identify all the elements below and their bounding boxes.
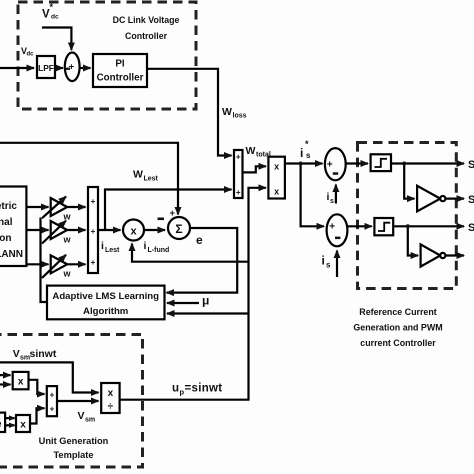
summation sigma circle: [168, 217, 190, 239]
hysteresis comparator 2: [374, 218, 393, 235]
wire hysteresis 2 output S3: [393, 225, 464, 227]
wire Vdc input to LPF: [0, 67, 34, 69]
svg-text:S: S: [468, 159, 474, 171]
label up equals sinwt: [172, 383, 222, 397]
svg-text:+: +: [50, 391, 55, 400]
label is upper: [327, 191, 335, 205]
wire branch to NOT gate 1: [404, 164, 414, 199]
svg-text:Generation and PWM: Generation and PWM: [353, 323, 442, 333]
summing junction upper: [325, 148, 346, 180]
wire is-star branch to lower summing: [301, 164, 324, 227]
svg-text:w: w: [63, 269, 72, 279]
wire LMS output to weights vertical: [41, 218, 48, 303]
wire upper summing to hysteresis 1: [346, 162, 368, 164]
svg-text:s: s: [326, 261, 331, 270]
svg-text:e: e: [196, 233, 203, 247]
wire weight2 to summer: [67, 229, 85, 231]
wire weight3 to summer: [67, 263, 85, 265]
svg-text:Adaptive LMS Learning: Adaptive LMS Learning: [52, 291, 159, 302]
wire is into upper summing: [335, 185, 337, 204]
junction dot hysteresis1 branch: [402, 162, 406, 166]
wire is-star to upper summing: [285, 162, 323, 164]
svg-text:Lest: Lest: [105, 247, 120, 254]
svg-text:+: +: [329, 222, 335, 233]
svg-text:dc: dc: [51, 14, 59, 21]
wire WLest from junction up and right to adder: [105, 190, 232, 231]
label Vsm: [78, 410, 96, 424]
NOT gate 2: [421, 244, 446, 266]
wire branch to NOT gate 2: [408, 226, 418, 255]
summing junction DC link: [65, 53, 80, 82]
svg-text:current Controller: current Controller: [360, 338, 436, 348]
summing junction lower: [327, 214, 348, 246]
wire input 1 to small mult 1: [0, 374, 11, 376]
svg-text:on: on: [0, 233, 12, 244]
svg-text:sinwt: sinwt: [30, 348, 57, 360]
svg-text:w: w: [63, 234, 72, 244]
label S2: [468, 194, 474, 206]
wire summing ellipse to PI controller: [80, 67, 91, 69]
label plus at sigma top: [170, 208, 176, 219]
svg-text:S: S: [468, 222, 474, 234]
svg-text:Algorithm: Algorithm: [83, 306, 128, 317]
wire PI output Wloss down to adder: [147, 69, 232, 156]
svg-text:+: +: [91, 197, 96, 206]
svg-text:x: x: [108, 388, 114, 399]
wire up template to multiplier circle bottom: [132, 244, 249, 262]
svg-text:S: S: [468, 194, 474, 206]
dashed box DC Link Voltage Controller: [18, 2, 196, 109]
wire input block to small mult 2 lower: [5, 424, 14, 426]
node Vdc* reference label: [42, 2, 59, 21]
svg-text:+: +: [236, 188, 241, 197]
small multiplier block 1: [13, 372, 29, 389]
wire is into lower summing: [336, 251, 338, 278]
svg-text:loss: loss: [233, 113, 247, 120]
label Reference Current Generation and PWM current Controller: [353, 307, 442, 348]
svg-text:LANN: LANN: [0, 249, 23, 260]
wire weight1 to summer: [67, 206, 85, 208]
wire Vdc* to summing ellipse: [42, 28, 71, 51]
wire multiplier to sigma iLfund: [144, 229, 165, 231]
multiplier block x x: [268, 157, 285, 199]
label DC Link Voltage Controller: [113, 15, 180, 41]
NOT gate 1: [417, 186, 445, 212]
svg-text:x: x: [130, 226, 137, 238]
divider block x over div: [101, 383, 119, 413]
svg-text:s: s: [330, 198, 334, 205]
wire FLANN to weight 2: [26, 229, 48, 231]
svg-text:Σ: Σ: [175, 222, 182, 236]
svg-text:i: i: [322, 254, 325, 268]
gain weight W2: [42, 221, 72, 245]
svg-text:V: V: [13, 348, 20, 360]
svg-text:W: W: [222, 106, 232, 118]
wire mu input: [167, 302, 199, 304]
wire small mult 1 to plus block: [29, 380, 45, 394]
wire up template to LMS bottom input: [167, 312, 249, 314]
svg-text:Unit Generation: Unit Generation: [39, 436, 109, 446]
svg-text:i: i: [101, 240, 104, 252]
svg-text:etric: etric: [0, 201, 17, 212]
hysteresis comparator 1: [371, 154, 391, 171]
block Adaptive LMS Learning Algorithm: [47, 286, 165, 320]
label mu: [202, 294, 209, 308]
svg-text:Reference Current: Reference Current: [359, 307, 436, 317]
wire input 2 to small mult 1: [0, 383, 11, 385]
wire Vsm sinwt to x-div block: [0, 362, 99, 392]
wire FLANN to weight 3: [26, 263, 48, 265]
svg-text:x: x: [274, 162, 279, 172]
label S1: [468, 159, 474, 171]
wire NOT gate 2 output S4: [445, 254, 464, 256]
svg-text:x: x: [20, 420, 26, 431]
wire NOT gate 1 output S2: [445, 198, 464, 200]
svg-text:Controller: Controller: [125, 31, 168, 41]
label Wtotal: [246, 145, 271, 159]
svg-text:dc: dc: [27, 52, 35, 58]
input block clipped at edge: [0, 413, 5, 432]
junction dot is-star branch: [299, 162, 303, 166]
block PI Controller: [93, 54, 147, 87]
svg-text:x: x: [18, 377, 24, 388]
block FLANN signal generation: [0, 187, 26, 267]
label is lower: [322, 254, 332, 270]
svg-text:w: w: [63, 212, 72, 222]
label minus at sigma left input: [158, 218, 165, 221]
svg-text:u: u: [172, 383, 179, 395]
summer block vertical: [88, 187, 98, 273]
svg-text:DC Link Voltage: DC Link Voltage: [113, 15, 180, 25]
wire load current input to sigma: [0, 143, 178, 215]
gain weight W3: [42, 255, 72, 279]
svg-text:W: W: [133, 169, 143, 181]
svg-text:PI: PI: [115, 59, 125, 70]
node Vdc input label: [21, 46, 34, 58]
wire input block to small mult 2 upper: [5, 417, 14, 419]
label Unit Generation Template: [39, 436, 109, 460]
wire small mult 2 to plus block: [30, 408, 45, 423]
svg-text:÷: ÷: [108, 402, 114, 413]
label S3: [468, 222, 474, 234]
label WLest: [133, 169, 159, 183]
svg-text:i: i: [300, 146, 303, 160]
wire FLANN to weight 1: [26, 206, 48, 208]
svg-text:Template: Template: [53, 450, 93, 460]
svg-text:+: +: [69, 62, 75, 73]
label e error: [196, 233, 203, 247]
svg-text:*: *: [305, 139, 309, 149]
svg-text:LPF: LPF: [38, 63, 54, 73]
dashed box Unit Generation Template: [0, 335, 143, 468]
svg-text:Lest: Lest: [144, 176, 159, 183]
wire up vertical into multiplier block lower input: [249, 188, 267, 400]
svg-text:x: x: [274, 187, 279, 197]
svg-text:nal: nal: [0, 217, 13, 228]
svg-text:sm: sm: [85, 417, 95, 424]
svg-text:+: +: [91, 227, 96, 236]
svg-text:+: +: [327, 160, 333, 171]
small multiplier block 2: [16, 415, 30, 432]
svg-text:W: W: [246, 145, 256, 157]
svg-text:+: +: [91, 258, 96, 267]
svg-text:i: i: [144, 240, 147, 252]
svg-text:=sinwt: =sinwt: [185, 383, 223, 395]
wire up equals sinwt output line: [120, 399, 250, 401]
svg-text:Controller: Controller: [97, 73, 144, 84]
dashed box Reference Current Generation: [358, 143, 457, 289]
wire Vsm to x-div block: [57, 400, 99, 402]
svg-text:+: +: [236, 153, 241, 162]
wire summer to multiplier circle iLest: [98, 229, 121, 231]
multiplier circle: [123, 220, 144, 241]
label iLfund: [144, 240, 170, 254]
wire error e feedback to LMS: [167, 228, 238, 293]
junction dot hysteresis2 branch: [406, 224, 410, 228]
svg-text:V: V: [78, 410, 85, 422]
junction dot e crossing: [236, 260, 239, 263]
adder block Wloss plus WLest: [234, 150, 243, 198]
svg-text:s: s: [306, 151, 311, 160]
label is-star: [300, 139, 311, 160]
svg-text:*: *: [50, 2, 54, 12]
wire hysteresis 1 output S1: [391, 162, 464, 164]
label Wloss: [222, 106, 247, 120]
gain weight W1: [42, 197, 72, 222]
svg-text:L-fund: L-fund: [148, 247, 170, 254]
label Vsm sinwt: [13, 348, 57, 362]
svg-text:+: +: [50, 405, 55, 414]
block LPF: [37, 56, 55, 78]
wire adder to multiplier block: [243, 166, 267, 172]
wire LPF to summing ellipse: [55, 67, 63, 69]
wire lower summing to hysteresis 2: [347, 225, 371, 227]
svg-text:μ: μ: [202, 294, 209, 308]
label iLest: [101, 240, 120, 254]
plus block vertical: [47, 386, 57, 416]
